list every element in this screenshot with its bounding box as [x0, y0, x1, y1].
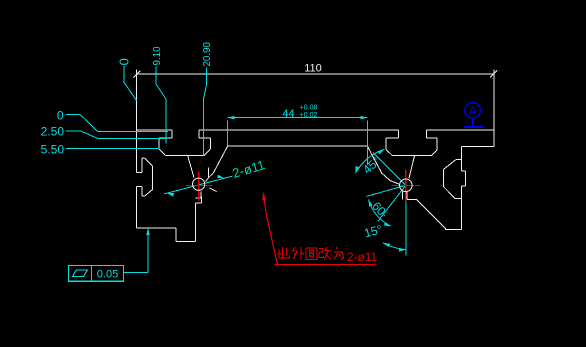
- svg-text:0: 0: [57, 109, 64, 123]
- svg-text:20.90: 20.90: [202, 41, 213, 66]
- svg-text:0.05: 0.05: [97, 269, 118, 281]
- svg-text:+0.08: +0.08: [300, 105, 318, 112]
- svg-text:0: 0: [117, 58, 132, 65]
- svg-text:A: A: [469, 106, 477, 118]
- svg-text:2.50: 2.50: [41, 125, 65, 139]
- svg-text:5.50: 5.50: [41, 142, 65, 156]
- svg-text:2-ø11: 2-ø11: [347, 250, 377, 264]
- svg-text:110: 110: [304, 63, 322, 75]
- svg-text:44: 44: [282, 108, 294, 120]
- svg-text:9.10: 9.10: [152, 46, 163, 66]
- svg-text:+0.02: +0.02: [300, 112, 318, 119]
